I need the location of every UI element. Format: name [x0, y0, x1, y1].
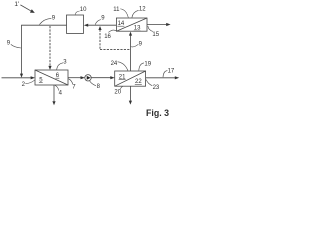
- wire: left vertical line 9 with top corner: [22, 25, 67, 74]
- leader for 20: [120, 86, 122, 89]
- leader for 19: [139, 63, 144, 71]
- svg-text:3: 3: [63, 60, 67, 66]
- label 13 (underlined): [134, 26, 141, 32]
- diagonal of box 11: [116, 18, 147, 31]
- wire: drain arrow under box 5: [53, 85, 55, 101]
- label 16: [104, 34, 111, 40]
- figure caption Fig. 3: [146, 108, 169, 118]
- leader: [131, 44, 139, 47]
- leader for top-left 9: [39, 18, 51, 24]
- svg-text:8: 8: [97, 84, 101, 90]
- svg-text:9: 9: [139, 42, 143, 48]
- leader for 4: [55, 85, 59, 90]
- label 20: [114, 90, 121, 96]
- diagonal of box 21/22: [115, 71, 146, 86]
- label 5 (underlined): [39, 77, 43, 83]
- label 17: [168, 69, 175, 75]
- leader: [95, 20, 101, 25]
- leader for 12: [132, 10, 139, 17]
- heat exchanger box 11: [116, 18, 147, 31]
- leader for 10: [75, 11, 80, 15]
- label 3: [63, 60, 67, 66]
- svg-text:12: 12: [139, 7, 146, 13]
- svg-text:10: 10: [80, 7, 87, 13]
- wire: outlet of box 6 to pump: [68, 77, 81, 79]
- label 15: [152, 32, 159, 38]
- svg-text:24: 24: [111, 61, 118, 67]
- svg-text:23: 23: [153, 85, 160, 91]
- svg-text:9: 9: [52, 16, 56, 22]
- wire: vertical connector box 21 top to box 11 bottom: [130, 35, 132, 71]
- box 10: [67, 15, 84, 33]
- label 19: [144, 62, 151, 68]
- wire: pump to box 21: [91, 77, 110, 79]
- svg-text:16: 16: [104, 34, 111, 40]
- svg-text:17: 17: [168, 69, 175, 75]
- label 21 (underlined): [119, 74, 126, 80]
- pump circle 8: [85, 75, 91, 81]
- leader for 24: [118, 62, 128, 71]
- wire: dashed vertical at x=100: [99, 30, 101, 50]
- svg-text:1': 1': [14, 1, 19, 8]
- svg-text:Fig. 3: Fig. 3: [146, 108, 169, 118]
- label 9 (right middle): [139, 42, 143, 48]
- label 6 (underlined): [56, 73, 60, 79]
- svg-text:7: 7: [72, 84, 76, 90]
- label 8: [97, 84, 101, 90]
- leader for 23: [146, 80, 152, 86]
- label 23: [153, 85, 160, 91]
- leader for 7: [69, 79, 73, 85]
- label 9 (top, left of box 10): [52, 16, 56, 22]
- arrowhead down onto inlet line 2: [20, 74, 23, 78]
- svg-text:11: 11: [113, 7, 120, 13]
- label 10: [80, 7, 87, 13]
- label 12: [139, 7, 146, 13]
- wire: inlet line 2 at bottom left: [2, 77, 31, 79]
- heat exchanger box 21/22: [115, 71, 146, 86]
- leader for 16: [108, 30, 116, 32]
- label 4: [59, 91, 63, 97]
- wire: line from box 11 to box 10 with left arrowhead: [88, 24, 116, 26]
- svg-text:9: 9: [101, 16, 105, 22]
- leader for 15: [148, 26, 153, 31]
- leader for 8: [90, 81, 96, 86]
- label 7: [72, 84, 76, 90]
- arrowhead into box 5 top: [48, 66, 51, 70]
- wire: dashed vertical at x=50 down to box 5: [49, 26, 51, 67]
- diagonal of box 5/6: [35, 70, 68, 85]
- wire: outlet 17 of box 22: [146, 77, 175, 79]
- svg-text:2: 2: [22, 82, 26, 88]
- leader for left 9: [11, 44, 21, 48]
- arrow from 1': [20, 5, 31, 11]
- label 11: [113, 7, 120, 13]
- pump triangle: [87, 76, 91, 80]
- wire: drain arrow under box 21: [129, 86, 131, 101]
- label 9 (top, right of box 10): [101, 16, 105, 22]
- leader for 17: [163, 71, 167, 78]
- svg-text:4: 4: [59, 91, 63, 97]
- wire: dashed horizontal to vertical connector: [100, 49, 131, 51]
- label 24: [111, 61, 118, 67]
- svg-text:19: 19: [144, 62, 151, 68]
- label 14 (underlined): [118, 21, 125, 27]
- label 9 (left): [7, 41, 11, 47]
- svg-text:9: 9: [7, 41, 11, 47]
- label 2: [22, 82, 26, 88]
- arrowhead up into top line from dashed branch: [98, 26, 101, 30]
- svg-text:20: 20: [114, 90, 121, 96]
- heat exchanger box 5/6: [35, 70, 68, 85]
- node 1' label: [14, 1, 19, 8]
- leader for 11: [120, 9, 128, 18]
- label 22 (underlined): [135, 79, 142, 85]
- leader for 2: [25, 80, 34, 83]
- wire: outlet of box 11 to the right: [147, 24, 166, 26]
- leader for 3: [57, 63, 63, 70]
- svg-text:15: 15: [152, 32, 159, 38]
